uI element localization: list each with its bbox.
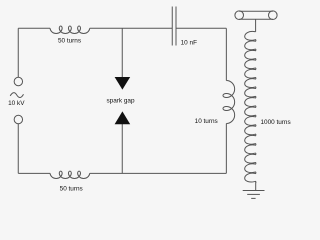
svg-text:1000 turns: 1000 turns	[260, 119, 290, 126]
svg-text:spark gap: spark gap	[106, 97, 135, 104]
svg-text:10 kV: 10 kV	[8, 100, 25, 107]
svg-text:10 nF: 10 nF	[181, 39, 197, 46]
svg-text:50 turns: 50 turns	[60, 186, 83, 193]
svg-text:50 turns: 50 turns	[58, 38, 81, 45]
svg-text:10 turns: 10 turns	[195, 118, 218, 125]
